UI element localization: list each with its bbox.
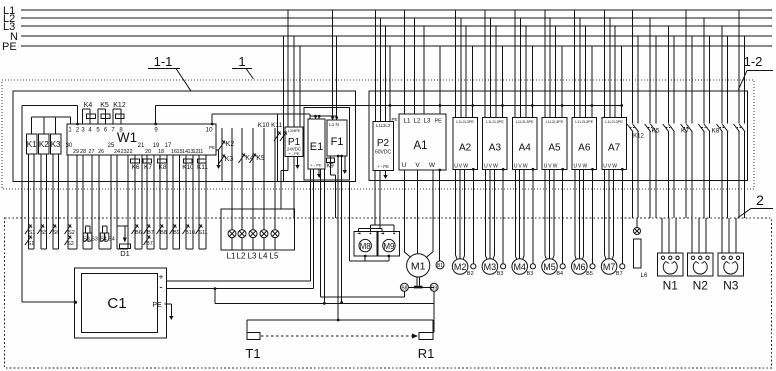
wire A7 L1 feed [603, 10, 605, 117]
F1 PE arrow [344, 156, 346, 171]
svg-text:+ - PE: + - PE [288, 151, 300, 156]
wire pin1 bus to K contactors [32, 117, 71, 134]
svg-text:B7: B7 [616, 271, 623, 277]
wire M8 M9 feed bracket lower [359, 229, 383, 233]
actuator M8 [354, 232, 377, 257]
wire M7 W output [612, 169, 613, 259]
svg-text:28: 28 [80, 149, 86, 155]
svg-text:M9: M9 [383, 242, 395, 251]
svg-text:L1: L1 [227, 252, 236, 261]
svg-text:S4: S4 [108, 237, 115, 243]
switch B6 [132, 225, 142, 237]
svg-text:S11: S11 [198, 230, 207, 236]
svg-text:L2: L2 [414, 118, 421, 125]
wire pair W1 to loop B9 [173, 155, 180, 249]
wire F1 output to R1 [340, 155, 343, 304]
svg-text:L1L2L3PE: L1L2L3PE [575, 120, 593, 124]
relay K11 [197, 159, 208, 171]
sensor pair S4 [100, 226, 115, 243]
wire B9 return bus [215, 289, 434, 333]
wire C1 plus bus [166, 169, 310, 281]
lamp L2 [237, 230, 246, 261]
wire socket circuit 7 pole 1 [738, 10, 740, 218]
svg-text:18: 18 [158, 149, 164, 155]
switch B8 [157, 225, 167, 237]
wire A1 U output [404, 170, 411, 258]
wire M6 W output [582, 169, 583, 259]
svg-text:K3: K3 [51, 140, 61, 149]
wire A3 L2 feed [490, 18, 492, 117]
C1 input dot [74, 301, 77, 304]
svg-text:B6: B6 [135, 230, 142, 236]
wire P1 outputs [281, 157, 294, 219]
wire P2 L1 feed [375, 10, 377, 122]
drive A3 [483, 117, 508, 169]
motor M7 [601, 259, 617, 275]
wire A6 L2 feed [579, 18, 581, 117]
drive A4 [512, 117, 537, 169]
svg-text:D1: D1 [120, 249, 130, 258]
svg-text:B7: B7 [146, 241, 153, 247]
wire M3 W output [493, 169, 494, 259]
svg-text:S6: S6 [53, 230, 60, 236]
svg-text:L3: L3 [424, 118, 431, 125]
encoder B1 [436, 169, 444, 270]
socket N2 [688, 253, 714, 293]
contact pair 5 [698, 124, 710, 132]
wire M3 V output [489, 169, 491, 258]
wire A1 PE feed [439, 46, 442, 114]
svg-text:K2: K2 [39, 140, 49, 149]
svg-text:L6: L6 [641, 273, 648, 279]
svg-text:K10 K11: K10 K11 [258, 122, 283, 129]
wire F1 N feed [335, 36, 338, 120]
lamp L5 [270, 230, 279, 261]
wire M8 M9 feed bracket upper [370, 225, 394, 232]
sensor B9 [430, 283, 438, 291]
switch S1 double contact [25, 225, 35, 248]
svg-text:S3: S3 [91, 237, 98, 243]
sensor B4 [556, 168, 565, 277]
wire F1 output to T1 [337, 155, 340, 322]
wire pair W1 to loop S11 [199, 155, 206, 249]
svg-text:L4: L4 [259, 252, 268, 261]
svg-text:L1NPE: L1NPE [288, 128, 301, 133]
svg-text:22: 22 [126, 149, 132, 155]
wire L6 feed [636, 218, 638, 227]
motor M2 [452, 259, 468, 275]
relay K9 coil [326, 156, 335, 218]
relay K10 [182, 159, 194, 171]
power supply P2 [373, 122, 394, 171]
svg-text:W: W [463, 163, 468, 169]
wire A3 PE feed [501, 46, 504, 117]
svg-text:M8: M8 [360, 242, 372, 251]
relay K4 loop on pins 3-4 [83, 102, 96, 124]
contact pair 7 [734, 124, 746, 132]
svg-text:L5: L5 [270, 252, 279, 261]
svg-text:S1: S1 [29, 230, 36, 236]
contact K11 wire [280, 36, 287, 182]
svg-text:M6: M6 [573, 262, 586, 272]
sensor B2 [467, 168, 476, 277]
relay K6 [131, 159, 140, 171]
svg-text:U: U [544, 163, 548, 169]
wire lamp feed 6 [274, 128, 276, 230]
sensor pair S3 [83, 226, 98, 243]
wire A5 L2 feed [549, 18, 551, 117]
svg-text:PE: PE [209, 145, 215, 150]
wire socket circuit 7 pole 2 [744, 36, 746, 218]
wire P1 PE feed [299, 46, 301, 127]
svg-text:20: 20 [145, 149, 151, 155]
controller W1 [66, 124, 216, 155]
svg-text:K8: K8 [712, 128, 720, 135]
label 1-1 with leader [148, 54, 191, 91]
wire M4 U output [515, 169, 516, 259]
wire lamp feed 5 [263, 128, 265, 230]
svg-text:L2: L2 [237, 252, 246, 261]
wire N2 feed 3 [705, 218, 707, 253]
drive A6 [572, 117, 597, 169]
relay K7 [143, 159, 152, 171]
sensor B8 [400, 283, 408, 291]
wire C1 minus bus [166, 169, 313, 290]
wire pair W1 to loop B8 [160, 155, 167, 249]
svg-text:M4: M4 [513, 262, 526, 272]
svg-text:W: W [612, 163, 617, 169]
M1 shaft [408, 277, 434, 288]
power supply P1 [285, 127, 303, 157]
E1 F1 mounting box [304, 108, 350, 180]
svg-text:B9: B9 [173, 230, 180, 236]
drive A2 [453, 117, 478, 169]
wire A6 PE feed [591, 46, 594, 117]
relay K5 loop on pins 5-6 [98, 102, 110, 124]
motor M3 [482, 259, 498, 275]
sensor B3 [497, 168, 506, 277]
wire pair W1 to loop S4 [99, 155, 111, 249]
svg-text:B3: B3 [497, 271, 504, 277]
motor M4 [512, 259, 528, 275]
contact pair 4 [681, 124, 693, 132]
switch S6 [49, 225, 59, 237]
svg-text:K5: K5 [100, 102, 109, 109]
light beam dashed arrow [261, 334, 418, 339]
net L2 rail [21, 17, 772, 19]
svg-text:E1: E1 [310, 141, 323, 153]
drive A1 [399, 114, 446, 170]
motor M5 [542, 259, 558, 275]
svg-text:L1: L1 [404, 118, 411, 125]
wire A1 L2 feed [413, 18, 415, 114]
indicator panel box [221, 209, 294, 250]
svg-text:U: U [402, 162, 407, 169]
wire pair from K2 down to machine area [41, 154, 47, 249]
drive A7 [602, 117, 627, 169]
cabinet 1 dashed outline [2, 80, 754, 189]
wire P1 N feed [293, 36, 295, 127]
svg-text:A7: A7 [608, 143, 621, 154]
svg-text:PE: PE [391, 117, 397, 122]
wire pin9 PE distribution bus [154, 106, 621, 126]
wire socket circuit 5 pole 2 [709, 36, 711, 218]
net L3 rail [21, 25, 772, 27]
wire A3 L1 feed [484, 10, 486, 117]
net N rail [21, 35, 772, 37]
receiver R1 [418, 333, 435, 362]
contactor K1 [26, 134, 37, 154]
svg-text:M7: M7 [603, 262, 616, 272]
wire M6 U output [575, 169, 576, 259]
contact pair 3 [663, 124, 675, 132]
svg-text:11: 11 [198, 149, 204, 155]
svg-text:2: 2 [756, 192, 764, 208]
wire pin2 bus to C1 [22, 106, 79, 303]
relay F1 [327, 120, 347, 156]
svg-text:A5: A5 [548, 143, 561, 154]
contact K3 [219, 155, 234, 165]
switch B7 double contact [144, 225, 154, 248]
wire socket circuit 5 pole 1 [703, 18, 705, 218]
svg-text:S4: S4 [100, 237, 107, 243]
svg-text:+: + [159, 272, 164, 282]
svg-text:K12: K12 [633, 134, 644, 140]
svg-text:K10: K10 [182, 164, 194, 171]
wire A6 L1 feed [574, 10, 576, 117]
wire M2 U output [456, 169, 457, 259]
wire N1 feed 1 [661, 218, 663, 253]
contactor K3 [51, 134, 62, 154]
svg-text:K1: K1 [27, 140, 37, 149]
wire lamp feed 3 [241, 128, 243, 230]
svg-text:L3: L3 [248, 252, 257, 261]
wire pair W1 to loop D1 [117, 155, 128, 249]
wire M7 V output [608, 169, 610, 258]
svg-text:L1L2L3PE: L1L2L3PE [486, 120, 504, 124]
svg-text:L1L2L3PE: L1L2L3PE [605, 120, 623, 124]
wire N3 feed 1 [721, 218, 723, 253]
wire P2 L3 feed [384, 26, 386, 122]
svg-text:N2: N2 [693, 279, 709, 293]
svg-text:1-2: 1-2 [744, 54, 763, 69]
wire A1 L1 feed [403, 10, 405, 114]
wire socket circuit 1 pole 2 [637, 36, 639, 218]
relay K8 [158, 159, 167, 171]
wire lamp feed 2 [231, 128, 233, 230]
wire N3 feed 2 [728, 218, 730, 253]
svg-text:S5: S5 [41, 230, 48, 236]
svg-text:30: 30 [66, 143, 73, 149]
wire pair from K1 down to machine area [29, 154, 34, 249]
wire T1 feed [247, 320, 433, 333]
svg-text:U: U [574, 163, 578, 169]
wire pair W1 to loop S2 [68, 155, 77, 249]
wire A6 L3 feed [584, 26, 586, 117]
wire A1 V output [417, 170, 419, 253]
wire M4 V output [519, 169, 521, 258]
wire socket circuit 3 pole 2 [673, 36, 675, 218]
wire A4 L3 feed [525, 26, 527, 117]
wire M4 W output [523, 169, 524, 259]
wire N1 feed 2 [668, 218, 670, 253]
wire socket circuit 4 pole 1 [685, 10, 687, 218]
wire M3 U output [486, 169, 487, 259]
svg-text:B10: B10 [185, 230, 195, 236]
svg-text:PE: PE [152, 302, 162, 309]
wire pair from K3 down to machine area [53, 154, 59, 249]
wire pair W1 to loop B7 [147, 155, 154, 249]
svg-text:M2: M2 [454, 262, 467, 272]
svg-text:A1: A1 [413, 140, 427, 152]
wire M2 W output [463, 169, 464, 259]
svg-text:B4: B4 [556, 271, 563, 277]
svg-text:PE: PE [2, 41, 17, 53]
wire A5 PE feed [561, 46, 564, 117]
subrack 1-1 outline [13, 91, 356, 182]
svg-text:B1: B1 [437, 263, 443, 269]
svg-text:F1: F1 [331, 136, 344, 148]
svg-text:21: 21 [138, 143, 145, 149]
socket N1 [658, 253, 684, 293]
svg-text:K7: K7 [681, 128, 689, 135]
svg-text:1: 1 [238, 54, 245, 69]
svg-text:K3: K3 [225, 156, 234, 163]
lamp L4 [259, 230, 268, 261]
svg-text:T1: T1 [245, 346, 260, 361]
drive A5 [542, 117, 567, 169]
svg-text:1-1: 1-1 [154, 54, 173, 69]
svg-text:R1: R1 [418, 346, 435, 361]
svg-text:B2: B2 [467, 271, 474, 277]
svg-text:29: 29 [73, 149, 79, 155]
svg-text:S3: S3 [83, 237, 90, 243]
wire socket circuit 2 pole 2 [655, 36, 657, 218]
wire A1 L3 feed [423, 26, 425, 114]
P2 PE arrow [385, 170, 387, 176]
contact K9 [250, 154, 265, 164]
wire pair W1 to loop B6 [135, 155, 142, 249]
socket N3 [718, 253, 744, 293]
svg-text:B5: B5 [586, 271, 593, 277]
sensor B3 [527, 168, 536, 277]
svg-text:+ - PE: + - PE [310, 163, 322, 168]
svg-text:U: U [454, 163, 458, 169]
svg-text:24: 24 [114, 149, 120, 155]
wire A2 L1 feed [454, 10, 456, 117]
wire F1 L1 feed [331, 10, 334, 120]
wire P2 output minus to M8 M9 [379, 170, 381, 228]
svg-text:-: - [159, 283, 162, 294]
net L1 rail [21, 9, 772, 11]
wire pair W1 to loop S3 [83, 155, 92, 249]
svg-text:L1L2L3: L1L2L3 [376, 123, 391, 128]
svg-text:K4: K4 [84, 102, 93, 109]
svg-text:10: 10 [205, 127, 213, 134]
svg-text:L1L2L3PE: L1L2L3PE [546, 120, 564, 124]
label 1 with leader [232, 54, 254, 79]
wire E1 top feeds [310, 114, 337, 119]
svg-text:L1 N: L1 N [329, 122, 339, 127]
wire P2 L2 feed [379, 18, 381, 122]
wire A1 W output [426, 170, 433, 258]
wire A7 L2 feed [609, 18, 611, 117]
sensor B7 [616, 168, 625, 277]
motor M6 [572, 259, 588, 275]
svg-text:K5: K5 [652, 128, 660, 135]
svg-text:B8: B8 [401, 286, 407, 292]
svg-text:K9: K9 [326, 164, 334, 170]
wire N2 feed 1 [691, 218, 693, 253]
svg-text:W: W [493, 163, 498, 169]
svg-text:W: W [429, 162, 436, 169]
relay K12 loop on pins 7-8 [113, 102, 126, 124]
wire A7 L3 feed [614, 26, 616, 117]
transmitter T1 [245, 333, 260, 362]
wire P2 output plus to M8 M9 [374, 170, 376, 225]
wire A5 L1 feed [544, 10, 546, 117]
svg-text:U: U [603, 163, 607, 169]
switch S5 [37, 225, 47, 237]
contact pair 1 [627, 124, 639, 132]
wire socket circuit 2 pole 1 [649, 18, 651, 218]
svg-text:W: W [523, 163, 528, 169]
wire N3 feed 3 [735, 218, 737, 253]
svg-text:P2: P2 [377, 138, 390, 149]
wire lamp feed 1 [221, 128, 223, 182]
lamp L1 [227, 230, 236, 261]
suppressor diode D1 [117, 226, 131, 258]
switch B10 [183, 225, 195, 237]
wire P2 PE feed [389, 46, 398, 122]
svg-text:B7: B7 [147, 230, 154, 236]
wire M7 U output [605, 169, 606, 259]
switch S2 double contact [65, 225, 75, 248]
wire lamp feed 4 [252, 128, 254, 230]
wire A2 PE feed [471, 46, 474, 117]
svg-text:C1: C1 [107, 295, 126, 312]
svg-text:A4: A4 [519, 143, 532, 154]
switch B9 [170, 225, 180, 237]
svg-text:W: W [583, 163, 588, 169]
wire P1 L1 feed [287, 10, 289, 127]
svg-text:V: V [415, 162, 420, 169]
W1 PE arrow to ground [216, 149, 219, 151]
wire socket circuit 6 pole 1 [721, 26, 723, 218]
wire A2 L2 feed [460, 18, 462, 117]
safety module E1 [308, 119, 325, 169]
svg-text:K2: K2 [226, 141, 235, 148]
net PE rail [21, 45, 772, 47]
contact K4 [239, 154, 254, 164]
contact K2 [219, 141, 235, 151]
wire socket circuit 1 pole 1 [632, 10, 634, 218]
svg-text:K7: K7 [144, 164, 152, 171]
wire B8 bus [321, 169, 405, 297]
svg-text:W: W [553, 163, 558, 169]
wire socket circuit 4 pole 2 [691, 36, 693, 218]
svg-text:L1L2L3PE: L1L2L3PE [456, 120, 474, 124]
svg-text:U: U [514, 163, 518, 169]
contact pair 6 [717, 124, 729, 132]
subrack 1-2 outline [369, 91, 748, 181]
svg-text:K8: K8 [159, 164, 167, 171]
wire M6 V output [578, 169, 580, 258]
svg-text:N1: N1 [663, 279, 679, 293]
lamp L6 [634, 228, 648, 280]
wire M5 U output [545, 169, 546, 259]
svg-text:B8: B8 [160, 230, 167, 236]
